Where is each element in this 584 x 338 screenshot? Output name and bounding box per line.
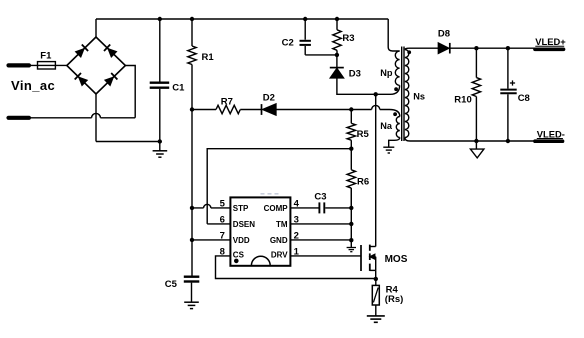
wire D8 to VLED+ [450, 47, 535, 49]
wire R7 to D2 [240, 109, 261, 111]
svg-text:GND: GND [270, 236, 288, 245]
pin number 1 [294, 246, 300, 257]
node R5/R6/DSEN [349, 147, 353, 151]
svg-text:Np: Np [380, 68, 393, 78]
transformer primary lead from top rail [388, 19, 399, 51]
svg-text:COMP: COMP [264, 204, 289, 213]
svg-text:C1: C1 [172, 82, 185, 93]
svg-text:7: 7 [220, 230, 225, 241]
wire DSEN sense line [207, 149, 351, 224]
wire Ns top to D8 [405, 48, 439, 49]
wire aux with hop over drain line [351, 105, 389, 109]
svg-text:R10: R10 [454, 94, 471, 105]
Na phase dot [393, 112, 397, 116]
ground at GND pin [347, 240, 356, 252]
svg-text:TM: TM [276, 220, 288, 229]
svg-text:C2: C2 [282, 37, 294, 48]
pin 5 STP wire with hop over DSEN line [192, 204, 230, 208]
capacitor C8 (polarized) [500, 48, 530, 141]
diode D8 [438, 28, 450, 53]
svg-text:DRV: DRV [271, 250, 288, 259]
node C2/R3/D3 [335, 53, 339, 57]
node bottom rail / C8 [506, 139, 510, 143]
node left bus / STP [190, 206, 194, 210]
svg-text:D3: D3 [349, 68, 361, 79]
svg-text:5: 5 [220, 198, 226, 209]
wire DC- rail to C1 [96, 141, 160, 143]
pin number 2 [294, 230, 299, 241]
transformer winding Ns [405, 50, 425, 138]
wire D3 anode to drain node [337, 78, 376, 94]
svg-text:Ns: Ns [413, 92, 425, 102]
label Vin_ac [11, 78, 55, 93]
svg-text:C3: C3 [314, 191, 326, 202]
svg-text:Na: Na [380, 121, 393, 131]
diode D2 [262, 92, 277, 115]
svg-text:F1: F1 [40, 51, 52, 62]
wire left bus VDD to C5 [191, 240, 193, 276]
svg-text:C5: C5 [165, 279, 178, 290]
pin 6 DSEN wire [207, 223, 230, 225]
node left bus / aux line [190, 107, 194, 111]
svg-text:VLED-: VLED- [537, 128, 565, 139]
IC pin-1 dot [234, 259, 239, 264]
pin 3 TM wire [290, 223, 351, 225]
IC label CS [233, 250, 245, 259]
pin number 3 [294, 214, 299, 225]
bridge rectifier BR1 (diamond) [67, 37, 126, 94]
wire bridge top vertex to top rail [95, 19, 97, 37]
wire D2 to divider node [276, 109, 351, 111]
chassis ground under R10 [470, 141, 484, 158]
svg-text:R7: R7 [221, 97, 233, 108]
svg-text:R1: R1 [202, 52, 215, 63]
node left bus / VDD [190, 238, 194, 242]
pin number 7 [220, 230, 225, 241]
svg-text:Vin_ac: Vin_ac [11, 78, 55, 93]
transformer winding Np [380, 51, 399, 85]
svg-text:2: 2 [294, 230, 299, 241]
wire R6 to COMP node [350, 188, 352, 208]
resistor R3 [333, 19, 355, 55]
pin 4 COMP wire [290, 207, 318, 209]
wire left bus down to STP node [191, 110, 193, 208]
svg-text:C8: C8 [518, 93, 530, 104]
IC label COMP [264, 204, 289, 213]
pin number 4 [294, 198, 300, 209]
node TM [349, 222, 353, 226]
wire AC1 to fuse [29, 64, 67, 66]
IC label VDD [233, 236, 250, 245]
node drain / Np bottom [374, 92, 378, 96]
svg-text:R5: R5 [357, 129, 370, 140]
wire Ns bottom to output rail [405, 138, 535, 142]
svg-text:R3: R3 [342, 33, 354, 44]
transistor MOS (N-MOSFET) [361, 245, 408, 271]
svg-text:R6: R6 [357, 176, 369, 187]
terminal VLED- [535, 128, 565, 141]
svg-text:STP: STP [233, 204, 249, 213]
wire AC2 with hop over bridge negative lead [29, 113, 135, 117]
svg-text:D8: D8 [438, 28, 450, 39]
svg-text:(Rs): (Rs) [385, 294, 403, 305]
wire aux into Na winding [390, 110, 400, 117]
node GND [349, 238, 353, 242]
wire Np bottom to drain node [376, 85, 400, 94]
ground at R4 [367, 316, 385, 322]
node source / CS / R4 [374, 277, 378, 281]
bridge diode D-c (bottom to left) [75, 73, 89, 87]
pin 2 GND wire [290, 239, 351, 241]
input terminal AC line 2 (thick bar) [9, 116, 30, 120]
wire DC+ top rail [96, 18, 388, 20]
IC label DRV [271, 250, 288, 259]
node top rail / C1 [158, 17, 162, 21]
wire MOS drain up to primary [375, 94, 377, 246]
IC label STP [233, 204, 249, 213]
resistor R1 [188, 19, 215, 64]
wire COMP node to TM node [350, 208, 352, 240]
bridge diode D-d (bottom to right) [104, 73, 118, 87]
wire C3 to COMP node [325, 207, 351, 209]
node COMP/R6 [349, 206, 353, 210]
wire bridge right vertex to AC2 [125, 66, 135, 118]
IC label DSEN [233, 220, 255, 229]
wire MOS source down [375, 270, 377, 279]
node C1 bottom [158, 139, 162, 143]
wire Na bottom to ground [389, 138, 400, 148]
wire left bus R1 to aux node [191, 65, 193, 110]
svg-text:D2: D2 [263, 92, 275, 103]
wire aux node to R7 [192, 109, 216, 111]
ground at C1 [153, 142, 168, 158]
pin number 5 [220, 198, 226, 209]
node bottom rail / R10 [474, 139, 478, 143]
pin 8 CS wire [216, 256, 376, 279]
node top rail / R1 [190, 17, 194, 21]
capacitor C1 [150, 19, 185, 142]
svg-text:3: 3 [294, 214, 299, 225]
node top rail / R3 [335, 17, 339, 21]
Np phase dot [394, 87, 398, 91]
Ns phase dot [407, 50, 411, 54]
svg-text:MOS: MOS [385, 254, 408, 265]
input terminal AC line 1 (thick bar) [9, 63, 30, 67]
diode D3 [330, 55, 361, 79]
resistor R5 [347, 110, 369, 149]
capacitor C3 [314, 191, 326, 213]
svg-text:VDD: VDD [233, 236, 250, 245]
ground at C5 [184, 302, 199, 308]
svg-text:6: 6 [220, 214, 225, 225]
terminal VLED+ [535, 36, 566, 49]
IC label TM [276, 220, 288, 229]
node top rail / C2 [303, 17, 307, 21]
svg-text:DSEN: DSEN [233, 220, 255, 229]
faint marks above IC [261, 193, 279, 195]
node output / R10 [474, 46, 478, 50]
IC bottom notch [251, 256, 270, 265]
resistor R6 [347, 149, 369, 208]
pin number 8 [220, 246, 225, 257]
ground at Na [383, 147, 394, 153]
pin number 6 [220, 214, 225, 225]
fuse F1 [38, 51, 56, 70]
pin 1 DRV wire [290, 255, 361, 257]
IC label GND [270, 236, 288, 245]
bridge diode D-b (right to top) [104, 45, 118, 59]
svg-text:8: 8 [220, 246, 225, 257]
capacitor C2 [282, 19, 337, 55]
bridge diode D-a (left to top) [75, 45, 89, 59]
svg-text:CS: CS [233, 250, 245, 259]
op-amp controller U1 (IC box) [230, 197, 290, 265]
capacitor C5 [165, 277, 200, 302]
resistor R10 [454, 48, 480, 141]
svg-text:1: 1 [294, 246, 300, 257]
node aux line / R5 [349, 107, 353, 111]
svg-text:VLED+: VLED+ [535, 36, 566, 47]
svg-text:4: 4 [294, 198, 300, 209]
resistor R4 (Rs) [372, 279, 403, 316]
transformer core [402, 47, 404, 142]
resistor R7 [216, 97, 240, 114]
transformer winding Na [380, 117, 400, 138]
wire left bus STP to VDD [191, 208, 193, 240]
node output / C8 [506, 46, 510, 50]
wire bridge bottom to DC- rail (hopped by AC2) [95, 94, 97, 142]
pin 7 VDD wire [192, 239, 230, 241]
